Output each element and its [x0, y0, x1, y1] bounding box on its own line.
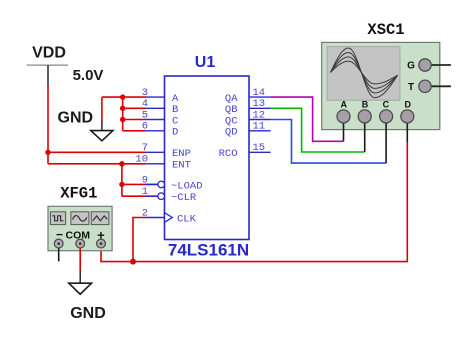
- wire scope terminal B stub: [364, 116, 366, 152]
- pin T stub line: [425, 85, 451, 87]
- wire clock net scope D vertical (red): [101, 143, 407, 262]
- svg-text:QC: QC: [225, 115, 238, 127]
- pin 5 stub C: [142, 109, 179, 127]
- svg-text:D: D: [404, 100, 411, 110]
- pin 12 stub QC: [225, 109, 271, 127]
- svg-text:5.0V: 5.0V: [73, 67, 104, 84]
- op IC U1 74LS161N body: [165, 76, 250, 240]
- svg-text:GND: GND: [70, 305, 106, 322]
- pin 6 stub D: [142, 121, 179, 139]
- svg-text:10: 10: [135, 154, 148, 166]
- svg-text:XSC1: XSC1: [367, 21, 404, 39]
- svg-text:U1: U1: [195, 54, 216, 71]
- svg-text:15: 15: [253, 142, 266, 154]
- svg-text:D: D: [172, 127, 178, 139]
- svg-text:5: 5: [142, 109, 148, 121]
- pin 1 stub ~CLR with bubble: [142, 186, 197, 204]
- svg-text:CLK: CLK: [177, 213, 197, 225]
- ground upper symbol: [91, 121, 113, 141]
- pin G stub line: [425, 64, 451, 66]
- junction dot LOAD branch: [119, 182, 124, 187]
- wire VDD vertical (red): [47, 86, 49, 164]
- wire ENP horizontal: [48, 151, 146, 153]
- svg-text:3: 3: [142, 87, 148, 99]
- svg-text:A: A: [172, 93, 179, 105]
- wire scope terminal C stub: [385, 116, 387, 163]
- terminal T: [408, 80, 431, 93]
- svg-text:9: 9: [142, 174, 148, 186]
- wire clock branch to CLK pin: [133, 218, 146, 262]
- junction dot bus pin3: [120, 94, 125, 99]
- svg-text:QD: QD: [225, 127, 238, 139]
- svg-text:13: 13: [253, 98, 266, 110]
- svg-text:7: 7: [142, 142, 148, 154]
- power symbol VDD: [27, 45, 68, 87]
- junction dot ENT branch: [119, 161, 124, 166]
- svg-text:~LOAD: ~LOAD: [171, 180, 203, 192]
- svg-text:11: 11: [253, 121, 266, 133]
- svg-text:G: G: [407, 61, 415, 72]
- terminal B: [358, 100, 371, 123]
- junction dot VDD/ENP: [45, 150, 50, 155]
- pin 10 stub ENT: [135, 154, 191, 172]
- svg-text:GND: GND: [58, 110, 94, 127]
- wire ENT horizontal: [48, 163, 146, 165]
- svg-text:VDD: VDD: [32, 45, 66, 62]
- wire QB to scope B (green): [271, 108, 365, 152]
- wire input bus pin6 horizontal: [123, 130, 146, 132]
- pin 7 stub ENP: [142, 142, 191, 160]
- terminal C: [380, 100, 393, 123]
- svg-text:XFG1: XFG1: [60, 185, 97, 203]
- pin 13 stub QB: [225, 98, 271, 116]
- svg-text:12: 12: [253, 109, 266, 121]
- wire input bus vertical: [122, 97, 124, 131]
- svg-text:4: 4: [142, 98, 148, 110]
- terminal D: [401, 100, 414, 123]
- svg-text:ENT: ENT: [172, 160, 191, 172]
- XFG1 triangle wave icon: [91, 212, 109, 225]
- XFG1 terminal plus: [97, 239, 106, 248]
- pin 3 stub A: [142, 87, 179, 105]
- pin 15 stub RCO: [219, 142, 271, 160]
- wire input bus pin5 horizontal: [123, 119, 146, 121]
- junction dot bus pin4: [120, 106, 125, 111]
- svg-text:C: C: [383, 100, 390, 110]
- wire XFG1 minus stub: [58, 248, 60, 261]
- XFG1 terminal COM: [76, 239, 85, 248]
- svg-text:1: 1: [142, 186, 148, 198]
- svg-text:RCO: RCO: [219, 148, 238, 160]
- XFG1 terminal minus: [54, 239, 63, 248]
- function generator XFG1 body: [48, 206, 112, 250]
- wire LOAD/CLR vertical branch: [121, 164, 123, 196]
- pin 9 stub ~LOAD with bubble: [142, 174, 203, 192]
- svg-text:~CLR: ~CLR: [171, 192, 197, 204]
- pin 14 stub QA: [225, 87, 271, 105]
- wire scope terminal A stub: [343, 116, 345, 141]
- svg-text:QB: QB: [225, 104, 238, 116]
- wire input bus pin4 horizontal: [123, 107, 146, 109]
- wire to upper ground: [101, 97, 103, 120]
- junction dot clock net: [130, 259, 136, 265]
- XFG1 square wave icon: [50, 212, 65, 225]
- svg-text:B: B: [172, 104, 178, 116]
- XFG1 sine wave icon: [71, 212, 89, 225]
- oscilloscope screen waveform: [331, 48, 398, 98]
- svg-text:A: A: [341, 100, 348, 110]
- wire QA to scope A (magenta): [271, 97, 344, 141]
- wire input bus pin3 horizontal: [102, 96, 146, 98]
- svg-text:B: B: [362, 100, 369, 110]
- junction dot bus pin5: [120, 117, 125, 122]
- pin 4 stub B: [142, 98, 179, 116]
- svg-text:T: T: [408, 82, 414, 93]
- terminal G: [407, 59, 431, 72]
- svg-text:QA: QA: [225, 93, 238, 105]
- pin 11 stub QD: [225, 121, 271, 139]
- wire ~LOAD horizontal: [122, 183, 158, 185]
- wire QC to scope C (blue): [271, 120, 387, 164]
- wire ~CLR horizontal: [122, 195, 158, 197]
- oscilloscope XSC1 body: [322, 42, 440, 129]
- wire scope terminal D stub: [406, 116, 408, 143]
- svg-text:ENP: ENP: [172, 148, 191, 160]
- ground lower symbol: [69, 270, 92, 294]
- terminal A: [337, 100, 350, 123]
- svg-text:6: 6: [142, 121, 148, 133]
- pin 2 stub CLK with clock triangle: [142, 207, 197, 225]
- wire XFG1 COM to ground (red): [79, 248, 81, 270]
- svg-text:C: C: [172, 115, 178, 127]
- svg-text:14: 14: [253, 87, 266, 99]
- svg-text:74LS161N: 74LS161N: [168, 241, 249, 260]
